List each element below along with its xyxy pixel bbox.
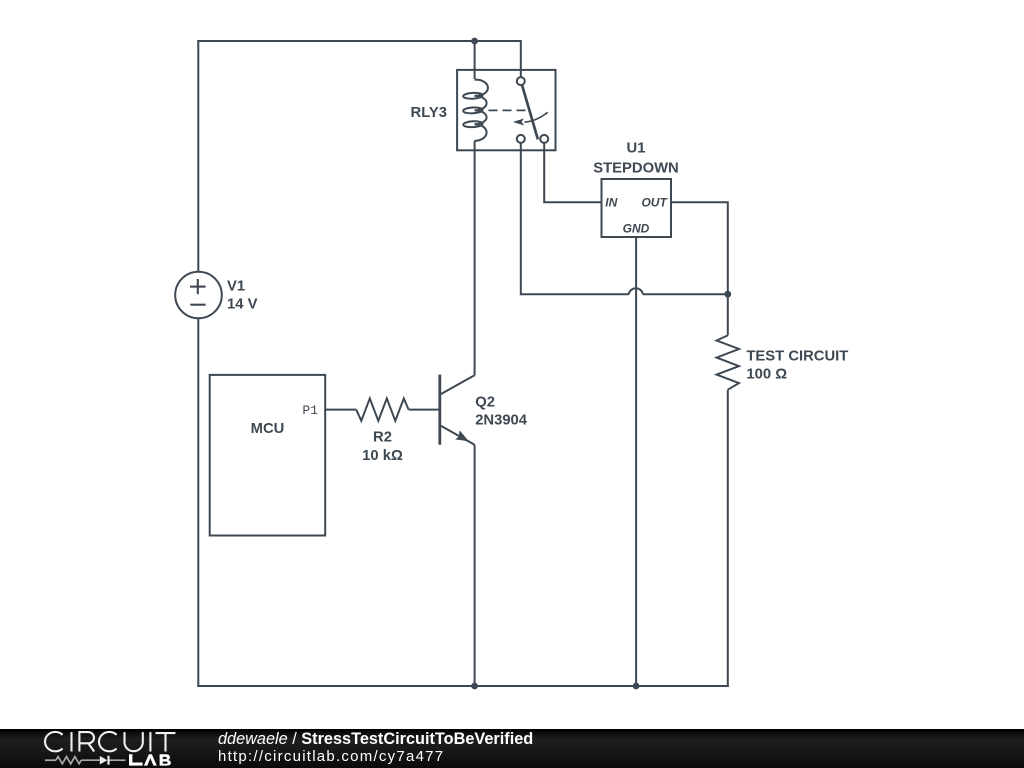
wire emitter to bottom rail: [474, 445, 476, 686]
transistor Q2 emitter arrow: [455, 430, 469, 441]
svg-text:GND: GND: [623, 222, 650, 236]
relay switch blade: [522, 85, 538, 139]
svg-text:100 Ω: 100 Ω: [746, 366, 787, 382]
node junction emitter / bottom rail: [471, 683, 478, 690]
relay throw arc arrow: [525, 112, 548, 122]
wire U1 OUT to right rail: [671, 202, 728, 335]
logo diode glyph: [100, 756, 108, 765]
svg-text:MCU: MCU: [251, 421, 285, 437]
wire coil drop from top rail: [474, 41, 476, 79]
wire hop over GND wire: [629, 288, 643, 294]
resistor TEST CIRCUIT: [717, 335, 739, 389]
relay actuation dashed line: [489, 109, 526, 111]
wire right rail resistor to bottom rail: [727, 390, 729, 687]
footer bar: [0, 729, 1024, 768]
svg-text:OUT: OUT: [641, 196, 668, 210]
wire hop to junction node: [643, 293, 728, 295]
logo CIRCUIT wordmark: [45, 732, 175, 752]
wire top rail: [197, 41, 521, 77]
wire relay NC terminal down and right to junction: [521, 143, 629, 294]
svg-text:V1: V1: [227, 279, 245, 295]
svg-text:2N3904: 2N3904: [475, 412, 528, 428]
svg-text:10 kΩ: 10 kΩ: [362, 448, 403, 464]
wire bottom rail: [197, 685, 729, 687]
MCU box: [210, 375, 326, 536]
wire relay NO terminal down to U1 IN: [544, 143, 601, 202]
svg-text:ddewaele / StressTestCircuitTo: ddewaele / StressTestCircuitToBeVerified: [218, 730, 533, 748]
svg-text:RLY3: RLY3: [411, 105, 447, 121]
wire left rail upper: [197, 40, 199, 272]
V1 minus sign: [190, 304, 205, 306]
svg-text:STEPDOWN: STEPDOWN: [593, 161, 679, 177]
node junction OUT rail / NC wire: [724, 291, 731, 298]
wire MCU pin P1 to R2: [325, 409, 356, 411]
logo LAB wordmark: [129, 754, 171, 765]
logo schematic squiggle wire: [45, 757, 126, 764]
wire U1 GND down to bottom rail: [635, 237, 637, 686]
transistor Q2 emitter: [441, 426, 475, 445]
V1 plus sign: [190, 279, 206, 305]
resistor R2: [356, 398, 408, 420]
relay coil return loops: [463, 92, 483, 99]
wire coil bottom to collector: [474, 141, 476, 375]
svg-text:Q2: Q2: [475, 395, 495, 411]
logo resistor glyph: [56, 757, 81, 764]
relay switch common terminal: [517, 77, 525, 85]
relay RLY3 box: [457, 70, 555, 150]
transistor Q2 collector: [441, 375, 475, 394]
svg-text:14 V: 14 V: [227, 297, 258, 313]
relay RLY3 coil: [463, 80, 488, 141]
svg-text:P1: P1: [302, 403, 318, 418]
U1 stepdown box: [602, 179, 672, 237]
node junction GND / bottom rail: [633, 683, 640, 690]
wire R2 to Q2 base: [409, 409, 440, 411]
wire left rail lower: [197, 318, 199, 687]
node junction top rail / coil: [471, 38, 478, 45]
svg-text:http://circuitlab.com/cy7a477: http://circuitlab.com/cy7a477: [218, 748, 444, 765]
relay switch NO terminal: [540, 135, 548, 143]
voltage source V1: [175, 272, 222, 319]
transistor Q2 base bar: [438, 375, 441, 445]
svg-text:TEST CIRCUIT: TEST CIRCUIT: [746, 348, 848, 364]
svg-text:U1: U1: [627, 141, 646, 157]
svg-text:R2: R2: [373, 430, 392, 446]
svg-text:IN: IN: [605, 196, 617, 210]
relay switch NC terminal: [517, 135, 525, 143]
